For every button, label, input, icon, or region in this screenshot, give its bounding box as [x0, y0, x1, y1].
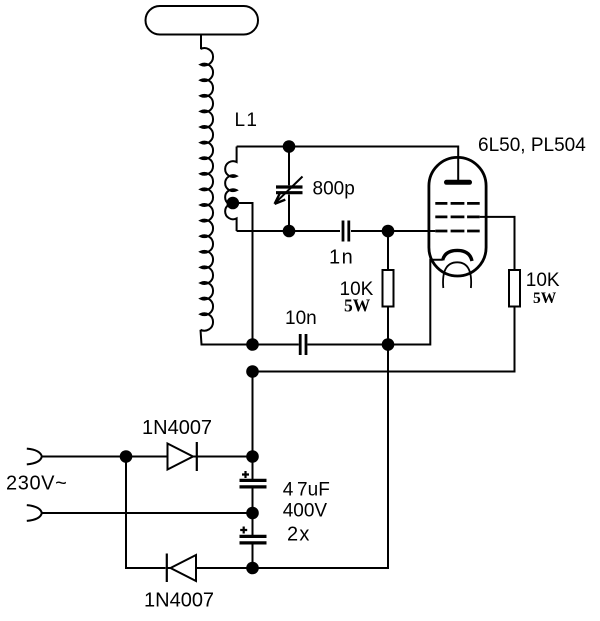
svg-text:230V~: 230V~ [6, 473, 67, 495]
capacitor 800p variable [275, 147, 303, 232]
wire cathode junction to B- rail [253, 345, 389, 569]
resistor R1 10K 5W (grid leak) [387, 231, 389, 270]
grid row 3 (control) [435, 230, 479, 233]
wire screen to resistor [480, 217, 515, 270]
node cathode junction [382, 338, 395, 351]
svg-text:1N4007: 1N4007 [142, 417, 212, 439]
wire AC left vertical [126, 457, 166, 569]
svg-text:L1: L1 [235, 110, 259, 131]
node AC top junction [120, 450, 133, 463]
inductor L1 antenna winding [201, 48, 214, 331]
wire AC neutral to cap midpoint [42, 512, 253, 514]
capacitor C1 47uF [240, 471, 267, 513]
cathode [443, 250, 472, 261]
inductor L1 link winding [225, 147, 236, 232]
node B+ rectifier [246, 450, 259, 463]
diode D1 1N4007 [168, 442, 253, 471]
svg-text:4 7uF: 4 7uF [283, 480, 330, 501]
svg-text:1n: 1n [329, 247, 354, 269]
filament heater [443, 262, 471, 288]
capacitor 1n [343, 221, 388, 242]
tube 6L50 / PL504 [388, 157, 486, 344]
wire coil bottom to B+ rail [201, 330, 253, 345]
node B- rectifier [246, 562, 259, 575]
svg-text:5W: 5W [344, 296, 371, 316]
svg-text:800p: 800p [313, 179, 355, 200]
node cap midpoint [246, 507, 259, 520]
wire tank top [237, 147, 459, 181]
node tap dot [227, 197, 240, 210]
wire B+ rail vertical [252, 372, 254, 480]
svg-text:400V: 400V [283, 501, 328, 522]
wire screen resistor bottom to B+ [253, 307, 515, 372]
node grid junction [382, 225, 395, 238]
anode plate [447, 180, 470, 185]
wire tank bottom [237, 230, 340, 232]
capacitor 10n [253, 334, 389, 355]
svg-text:10K: 10K [526, 270, 560, 291]
resistor R2 10K 5W (screen) [509, 270, 520, 307]
antenna [146, 6, 259, 35]
diode D2 1N4007 [167, 554, 253, 583]
wire tap to B+ [233, 203, 253, 345]
capacitor C2 47uF [240, 513, 267, 568]
wire antenna lead [200, 35, 202, 50]
svg-text:2x: 2x [287, 524, 311, 546]
wire grid to tube [388, 230, 435, 232]
wire cathode lead [388, 260, 443, 345]
grid row 1 [435, 202, 479, 205]
envelope [429, 157, 486, 276]
svg-text:1N4007: 1N4007 [144, 590, 214, 612]
grid row 2 (screen) [435, 215, 479, 218]
svg-text:5W: 5W [533, 290, 557, 307]
node screen feed [246, 365, 259, 378]
wire AC top [42, 456, 168, 458]
svg-text:6L50, PL504: 6L50, PL504 [478, 135, 586, 156]
terminal AC neutral [27, 505, 42, 521]
terminal AC live [27, 449, 42, 465]
node B+ / 10n left [246, 338, 259, 351]
svg-text:10n: 10n [285, 308, 317, 329]
node tank bottom [283, 225, 296, 238]
node tank top [283, 140, 296, 153]
